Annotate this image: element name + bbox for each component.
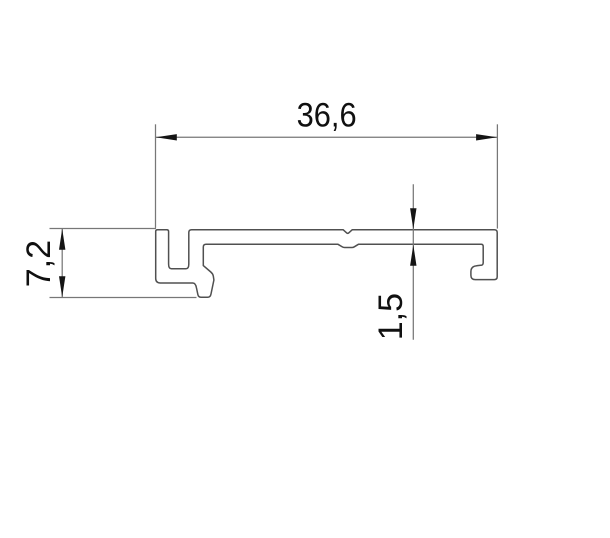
dimension 36,6: right arrowhead xyxy=(476,134,497,140)
profile outline (aluminium extrusion cross-section) xyxy=(156,230,498,298)
dimension 7,2: bottom extension line xyxy=(50,297,197,299)
dimension 36,6: dimension line xyxy=(156,136,498,138)
dimension 36,6: left extension line xyxy=(155,124,157,228)
dimension 1,5: lower arrowhead (points up) xyxy=(410,245,416,266)
dimension 36,6: right extension line xyxy=(496,124,498,228)
dimension 1,5: upper arrowhead (points down) xyxy=(410,208,416,229)
svg-text:1,5: 1,5 xyxy=(372,293,410,340)
dimension 36,6: left arrowhead xyxy=(156,134,177,140)
svg-text:36,6: 36,6 xyxy=(297,97,357,135)
dimension 1,5: dimension line (vertical, crossing the wall) xyxy=(412,184,414,339)
dimension 7,2: top arrowhead xyxy=(59,229,65,250)
svg-text:7,2: 7,2 xyxy=(20,240,58,287)
dimension 7,2: bottom arrowhead xyxy=(59,276,65,297)
dimension 7,2: dimension line xyxy=(61,229,63,298)
dimension 7,2: top extension line xyxy=(50,228,157,230)
